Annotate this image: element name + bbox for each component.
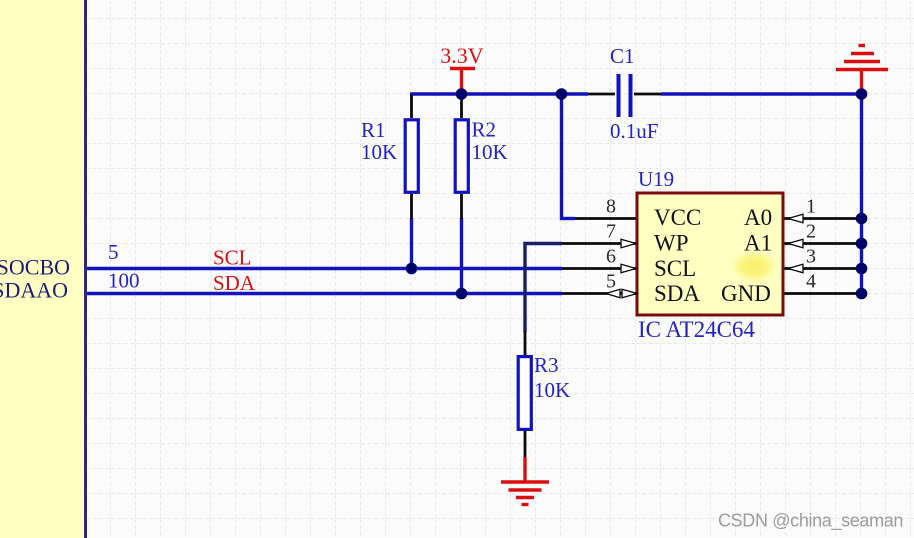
svg-text:5: 5 [108,240,119,264]
svg-text:10K: 10K [534,378,570,402]
svg-text:100: 100 [108,269,140,293]
svg-text:2: 2 [806,221,816,243]
svg-text:GND: GND [721,281,771,306]
svg-text:3.3V: 3.3V [440,43,484,68]
svg-text:CSDN @china_seaman: CSDN @china_seaman [718,511,903,532]
svg-text:R2: R2 [472,118,497,142]
svg-text:IC AT24C64: IC AT24C64 [638,317,755,342]
svg-text:VCC: VCC [654,205,701,230]
svg-text:10K: 10K [472,140,508,164]
svg-text:10K: 10K [361,140,397,164]
svg-text:SOCBO: SOCBO [0,255,70,280]
svg-text:7: 7 [606,221,616,243]
svg-text:R3: R3 [534,353,559,377]
svg-text:U19: U19 [638,167,674,191]
svg-text:0.1uF: 0.1uF [610,119,658,143]
svg-text:SDA: SDA [654,281,700,306]
svg-text:6: 6 [606,246,616,268]
svg-text:5: 5 [606,271,616,293]
svg-text:SCL: SCL [213,246,252,270]
svg-text:R1: R1 [361,118,386,142]
svg-text:WP: WP [654,231,689,256]
svg-text:SDA: SDA [213,271,256,295]
svg-text:SCL: SCL [654,256,696,281]
svg-text:1: 1 [806,196,816,218]
svg-text:A0: A0 [744,205,772,230]
svg-text:3: 3 [806,246,816,268]
svg-text:4: 4 [806,271,816,293]
svg-text:A1: A1 [744,231,772,256]
svg-text:8: 8 [606,196,616,218]
svg-text:SDAAO: SDAAO [0,278,68,303]
svg-text:C1: C1 [610,44,635,68]
